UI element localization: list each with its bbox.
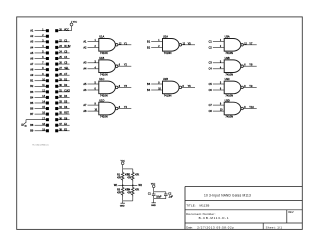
connector J1 pin 5 (left) (30, 51, 49, 54)
svg-text:47K: 47K (117, 192, 122, 194)
NAND gate U1A (83, 35, 131, 55)
off-page connector arrow (left margin) (22, 122, 28, 127)
svg-text:7410N: 7410N (225, 51, 233, 55)
ground symbol GND (ladder) (120, 201, 125, 207)
resistor R3 (117, 186, 129, 197)
NAND gate U1B (83, 56, 131, 76)
NAND gate U2A (147, 35, 195, 55)
svg-text:.1uF: .1uF (168, 196, 173, 198)
svg-text:7410N: 7410N (100, 72, 108, 76)
svg-text:10uF: 10uF (156, 196, 162, 198)
svg-text:10 3-Input NAND Gates M113: 10 3-Input NAND Gates M113 (204, 194, 251, 198)
power symbol VCC (above C1/C2) (151, 183, 156, 191)
NAND gate U3B (209, 56, 257, 76)
svg-text:U1C: U1C (99, 77, 104, 81)
svg-text:47K: 47K (127, 177, 132, 179)
wire cap bottom rail (154, 198, 166, 200)
svg-text:REV:: REV: (288, 210, 294, 214)
svg-text:U3B: U3B (225, 56, 230, 60)
connector J1 pin 13 (left) (30, 96, 49, 99)
connector J1 pin 35 (right) (55, 113, 69, 116)
connector J1 pin 9 (left) (30, 74, 49, 77)
svg-text:7410N: 7410N (100, 115, 108, 119)
power symbol VCC (top, circle) (70, 21, 78, 26)
svg-text:HCC/AD-BRAD(1): HCC/AD-BRAD(1) (32, 144, 49, 147)
svg-text:B-CB-M113-D-1: B-CB-M113-D-1 (199, 216, 230, 220)
NAND gate U2B (147, 77, 195, 97)
wire rails R1/R2 to mid node (122, 182, 124, 186)
svg-text:7410N: 7410N (164, 94, 172, 98)
svg-text:Date:: Date: (186, 225, 193, 229)
svg-text:7410N: 7410N (225, 72, 233, 76)
connector J1 pin 3 (left) (30, 40, 49, 43)
connector J1 pin 6 (left) (30, 57, 49, 60)
svg-text:U1D: U1D (99, 98, 104, 102)
svg-text:IN_B2: IN_B2 (64, 46, 71, 48)
svg-text:Y10: Y10 (249, 106, 254, 109)
svg-text:U1A: U1A (99, 35, 104, 39)
NAND gate U3D (209, 98, 257, 118)
svg-text:VCC: VCC (64, 29, 69, 31)
NAND gate U3C (209, 77, 257, 97)
svg-text:VCC: VCC (73, 22, 78, 24)
connector J1 pin 4 (left) (30, 46, 49, 49)
svg-text:47K: 47K (127, 192, 132, 194)
connector J1 pin 1 (left) (30, 29, 49, 32)
svg-text:7410N: 7410N (225, 94, 233, 98)
connector J1 pin 27 (right) (55, 68, 69, 71)
resistor R2 (127, 171, 139, 182)
svg-text:SEL: SEL (64, 68, 69, 70)
capacitor C1 (148, 192, 162, 199)
svg-text:RST: RST (64, 113, 69, 115)
connector J1 pin 23 (right) (55, 46, 71, 49)
connector J1 pin 10 (left) (30, 79, 49, 82)
svg-text:2/27/2013 09:58:02p: 2/27/2013 09:58:02p (197, 225, 234, 229)
connector J1 pin 36 (right) (55, 118, 69, 121)
connector J1 pin 30 (right) (55, 85, 69, 88)
connector J1 pin 37 (right) (55, 124, 69, 127)
NAND gate U3A (209, 35, 257, 55)
connector J1 pin 2 (left) (30, 35, 49, 38)
connector J1 pin 20 (right) (55, 26, 71, 32)
connector J1 pin 19 (left) (30, 129, 49, 132)
svg-text:U1B: U1B (99, 56, 104, 60)
connector J1 pin 29 (right) (55, 79, 69, 82)
svg-text:U3C: U3C (225, 77, 230, 81)
sheet border frame (17, 17, 303, 230)
connector J1 pin 31 (right) (55, 90, 70, 93)
svg-text:GND: GND (120, 205, 125, 207)
connector J1 pin 14 (left) (30, 101, 49, 104)
NAND gate U1C (83, 77, 131, 97)
svg-text:U3D: U3D (225, 98, 230, 102)
svg-text:U2B: U2B (163, 77, 168, 81)
connector J1 pin 25 (right) (55, 57, 69, 60)
svg-text:7410N: 7410N (100, 94, 108, 98)
title block frame (185, 187, 302, 230)
svg-text:7410N: 7410N (225, 115, 233, 119)
connector J1 pin 26 (right) (55, 63, 69, 66)
svg-text:U3A: U3A (225, 35, 230, 39)
connector J1 pin 18 (left) (30, 124, 49, 127)
svg-text:47K: 47K (135, 190, 140, 192)
power symbol VCC (above R1/R2) (121, 160, 126, 169)
mid node wire with net labels (114, 184, 143, 187)
connector J1 pin 16 (left) (30, 113, 49, 116)
connector J1 pin 22 (right) (55, 40, 69, 43)
svg-text:CLK2: CLK2 (64, 90, 70, 92)
wire R3/R4 to gnd rail (122, 197, 124, 201)
connector J1 pin 17 (left) (26, 118, 49, 122)
svg-text:U2A: U2A (163, 35, 168, 39)
connector J1 pin 32 (right) (55, 96, 69, 99)
connector J1 pin 38 (right) (55, 129, 69, 132)
wire cap top rail (154, 191, 166, 193)
svg-text:7410N: 7410N (164, 51, 172, 55)
wire VCC rail to R1/R2 (123, 168, 133, 170)
connector J1 pin 28 (right) (55, 74, 69, 77)
svg-text:GND: GND (151, 205, 156, 207)
connector J1 pin 24 (right) (55, 51, 69, 54)
svg-text:Sheet: 1/1: Sheet: 1/1 (266, 225, 283, 229)
connector J1 pin 11 (left) (30, 85, 49, 88)
svg-text:47K: 47K (117, 177, 122, 179)
capacitor C2 (164, 192, 173, 199)
wire rail stubs to R1/R2 (122, 169, 124, 171)
connector J1 pin 33 (right) (55, 101, 69, 104)
resistor R4 (127, 186, 139, 197)
svg-text:47K: 47K (135, 175, 140, 177)
connector J1 pin 8 (left) (30, 68, 49, 71)
connector J1 pin 7 (left) (30, 63, 49, 66)
resistor R1 (117, 171, 129, 182)
svg-text:TITLE:: TITLE: (186, 203, 196, 207)
connector J1 pin 34 (right) (55, 107, 69, 110)
connector J1 pin 15 (left) (30, 107, 49, 110)
svg-text:M113B: M113B (200, 203, 210, 207)
NAND gate U1D (83, 98, 131, 118)
connector J1 pin 12 (left) (30, 90, 49, 93)
svg-text:7410N: 7410N (100, 51, 108, 55)
ground symbol GND (caps) (151, 199, 156, 207)
